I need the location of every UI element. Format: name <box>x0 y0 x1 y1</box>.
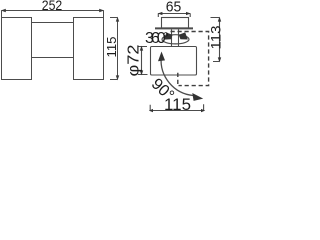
svg-text:360°: 360° <box>145 30 169 47</box>
svg-text:φ72: φ72 <box>126 44 143 76</box>
svg-text:252: 252 <box>42 0 63 13</box>
svg-text:113: 113 <box>207 25 223 49</box>
svg-text:65: 65 <box>166 0 182 15</box>
svg-text:115: 115 <box>104 37 119 58</box>
